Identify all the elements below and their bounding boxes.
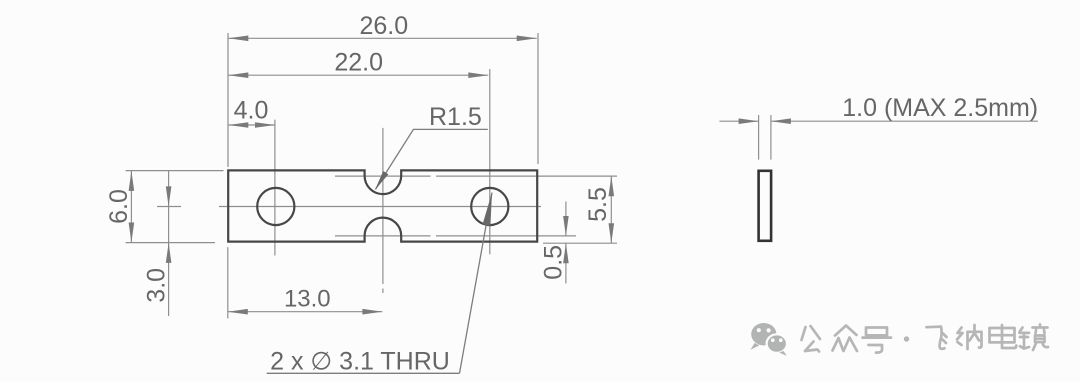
wechat logo icon — [751, 323, 788, 356]
dimension 1.0 (MAX 2.5mm) — [719, 94, 1038, 124]
centerline left hole vertical — [274, 120, 276, 256]
char fei — [927, 327, 947, 349]
svg-text:2 x ∅ 3.1 THRU: 2 x ∅ 3.1 THRU — [270, 348, 450, 376]
dimension 6.0 — [105, 171, 134, 243]
extension line left edge bottom — [227, 247, 229, 318]
dimension 4.0 — [228, 97, 275, 128]
dimension 22.0 — [228, 49, 488, 79]
svg-text:26.0: 26.0 — [359, 12, 408, 40]
dimension 3.0 — [143, 171, 172, 316]
svg-text:13.0: 13.0 — [284, 285, 331, 312]
dimension 0.5 — [540, 202, 569, 284]
leader R1.5 — [375, 103, 488, 190]
extension line 6.0 bottom — [126, 242, 215, 244]
svg-text:0.5: 0.5 — [540, 245, 568, 280]
middot — [904, 336, 909, 341]
svg-text:1.0 (MAX 2.5mm): 1.0 (MAX 2.5mm) — [842, 94, 1038, 122]
svg-text:5.5: 5.5 — [584, 187, 612, 222]
dimension 13.0 — [228, 285, 383, 314]
char hao — [863, 328, 892, 353]
extension line 5.5 bottom — [543, 242, 617, 244]
extension line 6.0 top — [126, 170, 224, 172]
char gong — [802, 326, 821, 352]
dimension 26.0 — [228, 12, 536, 41]
centerline right hole vertical — [489, 69, 491, 254]
svg-text:4.0: 4.0 — [234, 97, 269, 125]
svg-text:R1.5: R1.5 — [429, 103, 482, 131]
char jing — [1020, 325, 1049, 351]
hole left — [257, 188, 294, 225]
extension lines side view — [759, 115, 771, 160]
centerline horizontal through holes — [157, 206, 541, 208]
recess floor line bottom — [335, 235, 576, 237]
char na — [957, 325, 982, 349]
svg-text:6.0: 6.0 — [105, 189, 133, 224]
recess floor line top — [335, 175, 617, 177]
svg-text:3.0: 3.0 — [143, 268, 171, 303]
leader hole callout — [267, 193, 492, 376]
side view plate — [759, 171, 772, 241]
dimension 5.5 — [584, 176, 614, 243]
part outline front view — [228, 170, 537, 241]
svg-text:22.0: 22.0 — [334, 49, 383, 77]
extension line right edge top — [537, 33, 539, 164]
extension line left edge top — [227, 33, 229, 167]
centerline notch vertical — [382, 128, 384, 293]
char zhong — [833, 326, 858, 352]
char dian — [990, 325, 1017, 348]
hole right — [471, 188, 508, 225]
watermark text 公众号 · 飞纳电镜 — [802, 325, 1049, 353]
